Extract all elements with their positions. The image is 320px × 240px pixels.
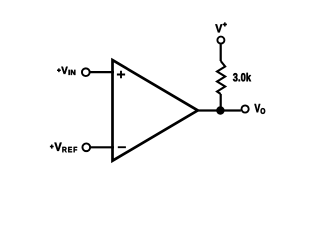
op-amp inverting input marker − (118, 146, 126, 148)
wire resistor to output node (220, 94, 222, 110)
terminal V+ (217, 37, 224, 44)
op-amp non-inverting input marker + (117, 71, 125, 79)
label V+ (215, 24, 222, 32)
wire +VIN input (89, 71, 114, 73)
label 3.0k (233, 73, 251, 82)
wire V+ to resistor (220, 44, 222, 61)
node output junction (216, 106, 224, 114)
label +VIN plus sign (57, 68, 61, 72)
terminal +VIN (82, 68, 90, 76)
resistor R1 3.0k (217, 61, 225, 94)
terminal VO (242, 105, 249, 112)
terminal +VREF (82, 143, 90, 151)
label VO (255, 104, 261, 112)
wire output (196, 109, 241, 111)
label +VREF (55, 143, 62, 151)
label +VREF plus sign (50, 145, 54, 149)
label +VIN (61, 67, 67, 74)
label V+ plus sign (223, 22, 227, 26)
op-amp U1 (113, 60, 198, 161)
wire +VREF input (90, 146, 114, 148)
